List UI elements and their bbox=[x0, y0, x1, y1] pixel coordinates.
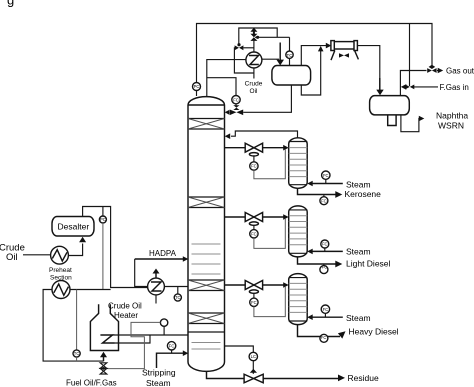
svg-text:Naphtha: Naphtha bbox=[436, 111, 468, 121]
svg-text:Fuel Oil/F.Gas: Fuel Oil/F.Gas bbox=[66, 379, 117, 387]
svg-text:Residue: Residue bbox=[348, 373, 379, 383]
svg-text:LC: LC bbox=[251, 354, 256, 359]
svg-text:Heater: Heater bbox=[114, 311, 138, 320]
svg-text:FC: FC bbox=[251, 300, 257, 305]
svg-text:g: g bbox=[7, 0, 14, 8]
svg-text:TC: TC bbox=[287, 53, 294, 58]
svg-text:FC: FC bbox=[169, 343, 175, 348]
svg-text:FC: FC bbox=[233, 97, 239, 102]
svg-text:WSRN: WSRN bbox=[438, 121, 464, 131]
svg-text:FC: FC bbox=[321, 198, 327, 203]
svg-text:TC: TC bbox=[74, 351, 80, 356]
svg-text:Preheat: Preheat bbox=[49, 267, 72, 274]
svg-text:Steam: Steam bbox=[346, 246, 371, 256]
svg-text:FC: FC bbox=[323, 173, 329, 178]
svg-text:Stripping: Stripping bbox=[142, 368, 176, 378]
svg-text:TC: TC bbox=[175, 295, 181, 300]
svg-text:Oil: Oil bbox=[250, 88, 259, 95]
svg-text:Steam: Steam bbox=[346, 179, 371, 189]
svg-text:Crude: Crude bbox=[245, 81, 263, 88]
svg-text:Light Diesel: Light Diesel bbox=[346, 259, 391, 269]
svg-text:Oil: Oil bbox=[6, 252, 18, 263]
svg-text:FC: FC bbox=[251, 231, 257, 236]
svg-text:Kerosene: Kerosene bbox=[345, 189, 382, 199]
svg-text:F.Gas in: F.Gas in bbox=[440, 83, 469, 92]
svg-text:Crude Oil: Crude Oil bbox=[108, 302, 142, 311]
svg-text:FC: FC bbox=[321, 335, 327, 340]
svg-text:FC: FC bbox=[251, 164, 257, 169]
svg-text:HADPA: HADPA bbox=[149, 249, 177, 258]
svg-text:FC: FC bbox=[322, 264, 328, 269]
svg-text:Steam: Steam bbox=[146, 378, 171, 387]
svg-text:PC: PC bbox=[100, 217, 106, 222]
svg-text:Gas out: Gas out bbox=[446, 67, 474, 76]
svg-text:PC: PC bbox=[194, 84, 200, 89]
svg-text:Heavy Diesel: Heavy Diesel bbox=[349, 327, 399, 337]
svg-text:Desalter: Desalter bbox=[58, 222, 90, 232]
svg-text:FC: FC bbox=[323, 307, 329, 312]
svg-text:Steam: Steam bbox=[346, 313, 371, 323]
svg-text:FC: FC bbox=[322, 242, 328, 247]
